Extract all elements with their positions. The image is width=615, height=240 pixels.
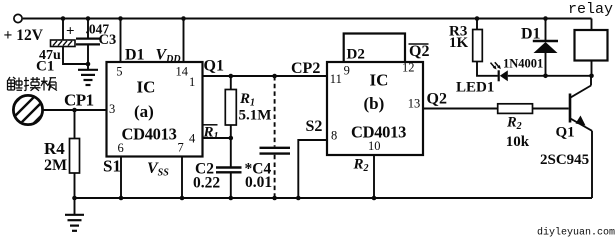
svg-text:4: 4 bbox=[189, 131, 196, 145]
svg-text:S1: S1 bbox=[103, 157, 121, 176]
svg-text:10: 10 bbox=[368, 139, 381, 153]
svg-text:Q1: Q1 bbox=[556, 125, 575, 141]
svg-text:0.01: 0.01 bbox=[245, 174, 272, 191]
label touch plate (hand-drawn CJK) bbox=[8, 77, 58, 91]
ground (C1/C3) bbox=[78, 70, 98, 85]
svg-text:5.1M: 5.1M bbox=[239, 108, 272, 124]
svg-text:+: + bbox=[66, 24, 75, 40]
svg-text:8: 8 bbox=[331, 129, 337, 143]
svg-text:+ 12V: + 12V bbox=[4, 27, 44, 44]
node C1 rail bbox=[61, 16, 66, 21]
svg-text:diyleyuan.com: diyleyuan.com bbox=[537, 227, 615, 239]
node R3 bbox=[475, 16, 480, 21]
svg-text:(b): (b) bbox=[364, 94, 385, 113]
wire R4 to bottom rail bbox=[74, 173, 76, 198]
relay coil bbox=[575, 19, 608, 76]
svg-text:C3: C3 bbox=[99, 32, 117, 48]
diode D1 1N4001 bbox=[533, 19, 558, 76]
wire dashed C4 top bbox=[274, 76, 276, 147]
node S2 bbox=[296, 196, 301, 201]
node pin14 rail bbox=[181, 16, 186, 21]
svg-text:IC: IC bbox=[370, 71, 389, 90]
svg-text:D2: D2 bbox=[347, 47, 365, 63]
svg-text:5: 5 bbox=[116, 64, 122, 78]
svg-text:(a): (a) bbox=[134, 102, 154, 121]
node S1 bbox=[119, 196, 124, 201]
svg-text:R2: R2 bbox=[353, 157, 369, 175]
svg-text:C1: C1 bbox=[36, 59, 54, 75]
svg-text:11: 11 bbox=[330, 72, 342, 86]
svg-text:CD4013: CD4013 bbox=[122, 125, 177, 144]
touch plate (hatched circle) bbox=[8, 88, 48, 131]
wire to ground left bbox=[74, 198, 76, 215]
svg-text:R1: R1 bbox=[239, 91, 255, 109]
svg-text:CP2: CP2 bbox=[291, 60, 320, 77]
wire pin6 S1 to bottom rail bbox=[120, 157, 122, 199]
resistor R4 bbox=[70, 139, 80, 174]
wire Q1 output to CP2 bbox=[203, 75, 328, 77]
svg-text:1: 1 bbox=[189, 75, 195, 89]
resistor R3 1K bbox=[473, 30, 483, 62]
wire R3 top bbox=[476, 19, 478, 30]
wire pin7 VSS to bottom rail bbox=[181, 157, 183, 199]
svg-text:3: 3 bbox=[109, 102, 115, 116]
svg-text:R4: R4 bbox=[44, 139, 65, 158]
op IC U1a CD4013 body bbox=[107, 62, 203, 157]
wire C3 bottom bbox=[87, 44, 89, 69]
bar of Q2bar bbox=[409, 43, 429, 45]
wire dashed C4 bottom bbox=[274, 155, 276, 198]
node D1 bottom bbox=[543, 74, 548, 79]
wire C3 top bbox=[87, 19, 89, 38]
svg-text:Q2: Q2 bbox=[427, 91, 447, 108]
svg-text:Q1: Q1 bbox=[204, 58, 224, 75]
wire pin4 reset bbox=[203, 137, 231, 139]
capacitor C3 bbox=[76, 39, 100, 45]
node collector bbox=[589, 74, 594, 79]
svg-text:LED1: LED1 bbox=[456, 80, 494, 96]
diode LED1 bbox=[491, 62, 508, 81]
node R2 bbox=[372, 196, 377, 201]
svg-text:14: 14 bbox=[176, 64, 189, 78]
wire top supply rail bbox=[23, 18, 592, 20]
wire S2 bbox=[298, 140, 327, 198]
wire LED to D1 node bbox=[508, 75, 592, 77]
node C2 bbox=[229, 196, 234, 201]
svg-text:Q2: Q2 bbox=[409, 43, 429, 60]
svg-text:2SC945: 2SC945 bbox=[540, 152, 589, 168]
wire C1 top bbox=[62, 19, 64, 41]
wire pin10 R2 to bottom rail bbox=[373, 155, 375, 198]
svg-text:2M: 2M bbox=[44, 157, 67, 174]
node C1 bottom junction bbox=[86, 62, 91, 67]
node C4 bottom bbox=[272, 196, 277, 201]
op IC U1b CD4013 body bbox=[327, 62, 423, 155]
node CP1 bbox=[72, 108, 77, 113]
svg-text:12: 12 bbox=[402, 61, 415, 75]
svg-text:R2: R2 bbox=[506, 115, 522, 133]
svg-text:10k: 10k bbox=[506, 134, 530, 150]
resistor R1 5.1M bbox=[225, 90, 236, 126]
node C3 rail bbox=[86, 16, 91, 21]
svg-text:relay: relay bbox=[568, 1, 613, 18]
svg-text:1K: 1K bbox=[449, 35, 469, 51]
wire C2 bottom bbox=[230, 172, 232, 198]
svg-text:D1: D1 bbox=[125, 47, 145, 64]
svg-text:R1: R1 bbox=[203, 125, 219, 143]
capacitor C2 bbox=[216, 168, 242, 173]
svg-text:1N4001: 1N4001 bbox=[503, 57, 543, 71]
capacitor C1 (electrolytic, hatched plate) bbox=[51, 40, 76, 47]
svg-text:6: 6 bbox=[118, 141, 124, 155]
svg-text:VSS: VSS bbox=[147, 160, 169, 179]
bar of R1bar bbox=[204, 124, 218, 126]
wire bottom rail bbox=[75, 197, 593, 199]
labels bbox=[4, 22, 321, 110]
svg-text:13: 13 bbox=[408, 97, 421, 111]
wire R1 top bbox=[230, 76, 232, 90]
resistor R2 10k bbox=[498, 104, 533, 114]
wire Q2 pin13 to R2 bbox=[423, 108, 498, 110]
svg-text:9: 9 bbox=[344, 64, 350, 78]
node pin5 rail bbox=[118, 16, 123, 21]
wire C1 bottom to ground junction bbox=[63, 47, 88, 65]
wire R2 to base bbox=[533, 108, 569, 110]
wire pin14 VDD to rail bbox=[183, 19, 185, 63]
transistor Q1 2SC945 bbox=[569, 76, 592, 198]
node Q1/R1 bbox=[229, 74, 234, 79]
svg-text:0.22: 0.22 bbox=[193, 175, 220, 192]
ground (bottom left) bbox=[65, 215, 84, 231]
svg-text:S2: S2 bbox=[306, 118, 323, 135]
node R4/ground bbox=[72, 196, 77, 201]
wire pin5 D1 to rail bbox=[120, 19, 122, 63]
svg-text:VDD: VDD bbox=[156, 47, 181, 66]
node VSS bbox=[180, 196, 185, 201]
wire R3 bottom to LED bbox=[477, 62, 498, 76]
wire touch plate to pin3 CP1 bbox=[42, 109, 106, 111]
node C4 top bbox=[272, 74, 277, 79]
svg-text:D1: D1 bbox=[521, 26, 541, 43]
wire R1 bottom bbox=[230, 125, 232, 167]
svg-text:7: 7 bbox=[178, 141, 184, 155]
svg-text:IC: IC bbox=[137, 78, 156, 97]
wire CP1 down to R4 bbox=[74, 110, 76, 139]
svg-text:CP1: CP1 bbox=[64, 91, 94, 110]
node R1/C2/pin4 bbox=[229, 136, 234, 141]
terminal +12V input bbox=[14, 14, 22, 22]
node D1 top bbox=[543, 16, 548, 21]
wire D2 to Q2bar feedback loop bbox=[344, 34, 405, 63]
capacitor C4 bbox=[260, 148, 291, 154]
